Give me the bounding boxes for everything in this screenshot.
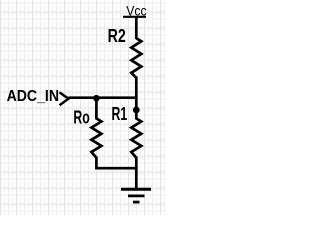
ground: [121, 189, 151, 202]
resistor R2: [131, 38, 141, 78]
wire ADC_IN to divider: [69, 96, 138, 99]
junction dot on R1 column: [133, 107, 140, 114]
resistor R1: [131, 118, 141, 157]
svg-text:R1: R1: [112, 104, 128, 124]
resistor Ro: [91, 118, 101, 157]
power symbol Vcc: [123, 3, 147, 18]
wire R1 to ground: [135, 157, 138, 190]
wire Ro bottom: [96, 157, 137, 169]
wire R2 to R1: [135, 77, 138, 120]
svg-text:Ro: Ro: [73, 107, 89, 127]
wire junction to Ro: [95, 98, 98, 120]
port ADC_IN: [7, 88, 69, 105]
svg-text:R2: R2: [108, 26, 126, 46]
junction dot at Ro branch: [93, 95, 100, 102]
wire Vcc to R2: [135, 16, 138, 39]
svg-text:ADC_IN: ADC_IN: [7, 88, 59, 105]
